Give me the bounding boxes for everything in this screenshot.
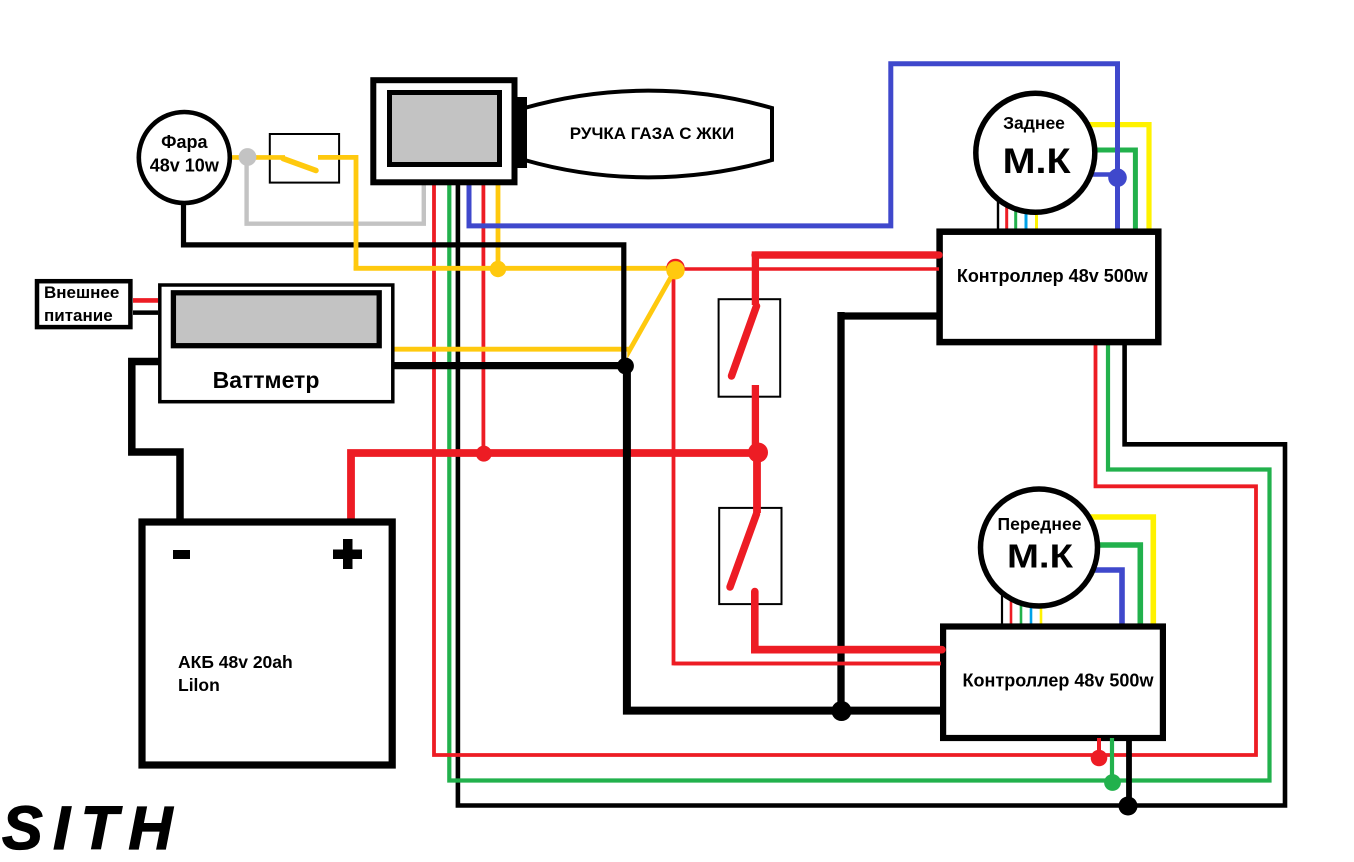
wire: gray wire display to headlight switch node bbox=[247, 152, 424, 224]
switch S3 blade (red) bbox=[730, 514, 757, 587]
node: red dot hall-wire on battery feed bbox=[476, 446, 492, 462]
node: black junction at wattmeter output bbox=[617, 358, 634, 375]
front motor wheel Переднее М.К bbox=[981, 489, 1098, 606]
wire: black from rear controller down to join front controller feed bbox=[837, 312, 844, 711]
wire: red net display throttle to bottom rail to rear controller bbox=[434, 184, 1256, 755]
wire: red stub under front controller bbox=[1097, 738, 1101, 758]
wire: red stub S3 down and right to front controller bbox=[755, 592, 942, 650]
wire: gold vertical from display bbox=[496, 184, 501, 268]
node: red circle under junction B bbox=[666, 259, 684, 277]
wire: green phase front motor bbox=[1085, 545, 1140, 626]
svg-text:Контроллер 48v 500w: Контроллер 48v 500w bbox=[963, 670, 1155, 690]
wire: rear motor hall stubs (black,red,green,cyan,yellow) bbox=[997, 195, 999, 230]
headlight Фара 48v 10w bbox=[139, 112, 230, 203]
node: red junction on battery feed bbox=[748, 443, 768, 463]
wire: thick red battery positive to junction bbox=[351, 453, 754, 519]
svg-text:М.К: М.К bbox=[1003, 141, 1071, 181]
wire: black battery negative jog from wattmeter bbox=[132, 362, 180, 520]
wire: thick black wattmeter right output bbox=[394, 362, 626, 369]
wire: thick black input rear controller bbox=[841, 312, 940, 319]
svg-text:SITH: SITH bbox=[2, 794, 183, 862]
node: gray junction dot bbox=[239, 148, 257, 166]
throttle LCD display unit bbox=[373, 80, 514, 182]
wire: red hall wire from display to battery junction bbox=[481, 184, 485, 454]
node: black junction bottom bbox=[1119, 797, 1138, 816]
wire: gold switch S1 output down to rail bbox=[318, 157, 356, 270]
switch S3 (lower power switch box) bbox=[719, 508, 781, 604]
node: gold junction B bbox=[666, 261, 684, 279]
svg-text:АКБ 48v 20ah: АКБ 48v 20ah bbox=[178, 652, 293, 672]
wire: red stub external power bbox=[133, 298, 158, 303]
wire: yellow phase front motor bbox=[1085, 517, 1153, 626]
switch S1 blade (gold) bbox=[283, 159, 316, 171]
battery plus symbol bbox=[343, 539, 353, 569]
wire: thick black down to front controller bbox=[627, 364, 942, 711]
wire: thin red from gold node to front controller (down then right) bbox=[674, 270, 942, 664]
node: black junction on front controller feed bbox=[832, 701, 852, 721]
switch S1 (headlight switch box) bbox=[270, 134, 339, 183]
wire: blue stub rear motor to node bbox=[1080, 172, 1118, 177]
svg-text:Контроллер 48v 500w: Контроллер 48v 500w bbox=[957, 266, 1149, 286]
wire: thick red input rear controller bbox=[755, 251, 939, 258]
node: red junction bottom bbox=[1091, 750, 1108, 767]
wire: thin red input front controller bbox=[674, 662, 942, 666]
battery minus symbol bbox=[173, 550, 190, 559]
throttle connector tab bbox=[516, 97, 528, 168]
svg-text:Внешнее: Внешнее bbox=[44, 283, 119, 302]
wire: black net display throttle to bottom rail to rear controller bbox=[458, 184, 1285, 806]
wire: green phase rear motor bbox=[1085, 150, 1135, 230]
svg-text:Заднее: Заднее bbox=[1003, 113, 1065, 133]
wire: gold horizontal rail to junction B bbox=[354, 266, 675, 271]
wire: green stub under front controller bbox=[1110, 738, 1114, 782]
svg-text:Lilon: Lilon bbox=[178, 675, 220, 695]
node: green junction bottom bbox=[1104, 774, 1121, 791]
wire: blue phase front motor bbox=[1085, 570, 1122, 626]
wire: blue throttle signal display to rear controller bbox=[469, 64, 1118, 231]
node: gold junction A bbox=[490, 261, 506, 277]
svg-text:Фара: Фара bbox=[161, 132, 208, 152]
switch S2 (upper power switch box) bbox=[719, 299, 781, 397]
wire: gold from headlight to switch S1 bbox=[230, 155, 285, 160]
wire: black stub under front controller bbox=[1126, 738, 1132, 806]
battery АКБ 48v 20ah Lilon bbox=[142, 522, 392, 765]
switch S2 blade (red) bbox=[732, 306, 757, 376]
wire: green net display throttle to bottom rail to rear controller bbox=[449, 184, 1269, 781]
rear controller Контроллер 48v 500w bbox=[940, 232, 1159, 342]
throttle LCD screen bbox=[390, 93, 500, 165]
wire: thick red from S2 corner down into switch bbox=[755, 255, 939, 305]
wattmeter screen bbox=[173, 293, 379, 346]
wire: gold diagonal to wattmeter bbox=[394, 270, 675, 350]
wire: red stub S2 to junction bbox=[752, 385, 759, 453]
wire: thick red junction down to S3 bbox=[753, 453, 761, 513]
wire: front motor hall stubs (black,red,green,cyan,yellow) bbox=[1001, 588, 1003, 626]
svg-text:РУЧКА ГАЗА С ЖКИ: РУЧКА ГАЗА С ЖКИ bbox=[570, 124, 734, 143]
wire: thin red input rear controller from gold node bbox=[675, 267, 939, 271]
svg-text:Ваттметр: Ваттметр bbox=[213, 367, 320, 393]
svg-text:М.К: М.К bbox=[1007, 539, 1074, 576]
rear motor wheel Заднее М.К bbox=[976, 93, 1095, 212]
wire: thick red input front controller bbox=[755, 646, 942, 654]
wire: black stub external power bbox=[133, 310, 158, 315]
front controller Контроллер 48v 500w bbox=[943, 627, 1163, 739]
node: blue junction at rear motor bbox=[1108, 168, 1127, 187]
wire: yellow phase rear motor bbox=[1085, 125, 1149, 230]
wire: black from headlight down-right to wattmeter node bbox=[184, 202, 624, 366]
svg-text:Переднее: Переднее bbox=[998, 514, 1082, 534]
throttle ellipse РУЧКА ГАЗА С ЖКИ bbox=[525, 91, 773, 178]
svg-text:48v 10w: 48v 10w bbox=[150, 156, 220, 176]
external power box Внешнее питание bbox=[37, 281, 130, 327]
svg-text:питание: питание bbox=[44, 306, 113, 325]
wattmeter box Ваттметр bbox=[160, 285, 393, 402]
